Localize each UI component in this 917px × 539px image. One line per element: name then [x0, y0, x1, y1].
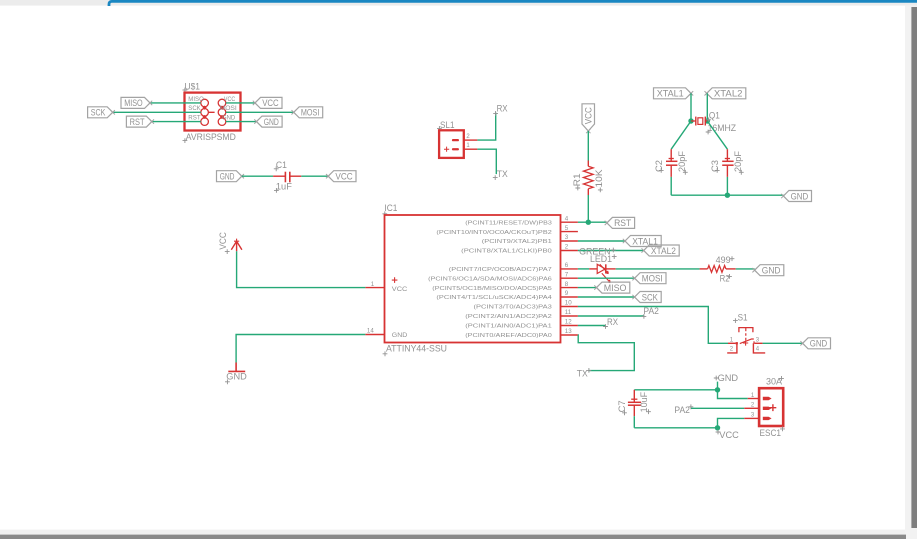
- svg-text:(PCINT5/OC1B/MISO/DO/ADC5)PA5: (PCINT5/OC1B/MISO/DO/ADC5)PA5: [432, 286, 551, 292]
- net flag VCC (C1): [328, 171, 356, 182]
- crystal Q1: [691, 120, 696, 122]
- svg-text:VCC: VCC: [719, 430, 739, 440]
- svg-text:RX: RX: [497, 104, 508, 114]
- svg-text:RST: RST: [614, 218, 631, 229]
- connector U$1 body: [185, 93, 241, 131]
- capacitor C3: [726, 149, 728, 161]
- wire R1 to RST net: [587, 195, 589, 222]
- IC1 pin 10 stub: [561, 306, 578, 308]
- svg-text:IC1: IC1: [384, 203, 397, 213]
- wire SCK to U$1: [113, 111, 201, 113]
- svg-text:MISO: MISO: [124, 98, 143, 109]
- svg-text:20pF: 20pF: [733, 150, 743, 172]
- wire LED1 to R2: [616, 268, 700, 270]
- svg-text:GND: GND: [762, 266, 781, 277]
- svg-text:7: 7: [565, 271, 569, 278]
- svg-text:PA2: PA2: [674, 405, 690, 415]
- svg-text:GND: GND: [718, 373, 739, 383]
- wire PA2 to ESC1 pin2: [691, 407, 744, 409]
- junction RST/R1: [586, 220, 591, 225]
- svg-text:GND: GND: [264, 117, 279, 128]
- svg-text:Q1: Q1: [709, 111, 720, 121]
- svg-text:(PCINT3/T0/ADC3)PA3: (PCINT3/T0/ADC3)PA3: [474, 305, 552, 311]
- wire GND to ESC1 pin1: [718, 390, 748, 399]
- wire RST net (pin 4): [578, 221, 607, 223]
- svg-text:R1: R1: [572, 173, 582, 186]
- LED LED1: [589, 268, 597, 270]
- svg-text:(PCINT9/XTAL2)PB1: (PCINT9/XTAL2)PB1: [482, 239, 552, 245]
- svg-text:XTAL2: XTAL2: [651, 246, 676, 257]
- wire SCK net (pin 9): [578, 296, 635, 298]
- right scrollbar thumb: [911, 7, 917, 528]
- wire C7 bottom: [633, 416, 635, 428]
- svg-text:(PCINT4/T1/SCL/uSCK/ADC4)PA4: (PCINT4/T1/SCL/uSCK/ADC4)PA4: [436, 295, 552, 301]
- junction left of Q1: [688, 118, 693, 123]
- net flag GND (C1): [217, 171, 242, 182]
- IC1 pin 4 stub: [561, 221, 578, 223]
- junction below C3: [725, 193, 730, 198]
- IC1 pin 9 stub: [561, 296, 578, 298]
- wire U$1 to VCC: [226, 102, 255, 104]
- svg-text:VCC: VCC: [224, 97, 236, 103]
- svg-text:14: 14: [367, 328, 374, 335]
- svg-text:GND: GND: [222, 115, 236, 121]
- svg-text:VCC: VCC: [218, 232, 228, 250]
- svg-text:S1: S1: [738, 312, 748, 322]
- wire Q1 to C3: [707, 121, 727, 149]
- net flag GND (S1): [803, 338, 831, 349]
- wire C1 to VCC: [301, 175, 328, 177]
- svg-text:(PCINT7/ICP/OC0B/ADC7)PA7: (PCINT7/ICP/OC0B/ADC7)PA7: [449, 267, 552, 273]
- svg-text:SCK: SCK: [642, 292, 659, 303]
- IC1 pin 3 stub: [561, 240, 578, 242]
- svg-text:TX: TX: [497, 169, 508, 179]
- wire GND to C1: [242, 175, 273, 177]
- svg-text:SCK: SCK: [91, 108, 106, 119]
- svg-text:2: 2: [565, 244, 569, 251]
- svg-text:GND: GND: [220, 172, 235, 183]
- IC1 pin 5 stub: [561, 231, 578, 233]
- SL1 pads: [452, 139, 459, 141]
- svg-text:30A: 30A: [766, 376, 783, 386]
- svg-text:AVRISPSMD: AVRISPSMD: [186, 132, 236, 143]
- wire VCC to R1: [587, 131, 589, 161]
- svg-text:MOSI: MOSI: [642, 274, 663, 285]
- net flag MOSI (U$1): [294, 107, 323, 118]
- wire RX net (pin 12): [578, 325, 606, 327]
- wire Q1 to C2: [671, 121, 691, 149]
- svg-text:C7: C7: [617, 400, 627, 412]
- S1 pin 2 hook: [727, 343, 737, 353]
- IC1 pin 1 (VCC) stub: [365, 287, 384, 289]
- capacitor C1: [273, 175, 285, 177]
- wire C3 down: [726, 177, 728, 195]
- svg-text:XTAL1: XTAL1: [657, 89, 684, 100]
- IC1 VCC pin label: [392, 277, 398, 283]
- U$1 pad join diamonds: [203, 106, 207, 110]
- svg-text:SL1: SL1: [440, 120, 455, 130]
- svg-text:RST: RST: [188, 115, 201, 121]
- S1 pin 3: [754, 342, 762, 344]
- net flag XTAL1 (IC1): [625, 236, 661, 247]
- ESC1 pads: [763, 397, 772, 400]
- resistor R2: [700, 268, 708, 270]
- net flag MOSI (IC1): [635, 273, 666, 284]
- wire U$1 to GND: [226, 121, 257, 123]
- resistor R1: [587, 161, 589, 167]
- IC1 pin 2 stub: [561, 250, 578, 252]
- wire XTAL1 down to Q1: [690, 93, 692, 121]
- net flag XTAL2 (crystal): [707, 88, 746, 99]
- net flag SCK (U$1): [88, 107, 113, 118]
- svg-text:VCC: VCC: [584, 107, 595, 124]
- U$1 pin direction ticks: [209, 111, 230, 113]
- svg-text:(PCINT1/AIN0/ADC1)PA1: (PCINT1/AIN0/ADC1)PA1: [465, 324, 552, 330]
- svg-text:GND: GND: [791, 191, 809, 202]
- wire C7 to VCC net: [634, 427, 717, 429]
- svg-text:13: 13: [565, 328, 572, 335]
- capacitor C2: [670, 149, 672, 161]
- svg-text:PA2: PA2: [643, 306, 659, 316]
- IC1 pin 12 stub: [561, 325, 578, 327]
- svg-text:10: 10: [565, 300, 572, 307]
- power symbol VCC (arrow): [231, 241, 242, 251]
- connector SL1 body: [439, 130, 464, 158]
- svg-text:11: 11: [565, 309, 572, 316]
- svg-text:RST: RST: [130, 117, 145, 128]
- SL1 pin 1: [464, 148, 478, 150]
- bottom dark grey bar: [0, 535, 906, 539]
- svg-text:GND: GND: [226, 372, 247, 382]
- svg-text:VCC: VCC: [392, 286, 408, 293]
- svg-text:(PCINT10/INT0/OC0A/CKOuT)PB2: (PCINT10/INT0/OC0A/CKOuT)PB2: [436, 230, 551, 236]
- net flag VCC (U$1): [255, 97, 282, 108]
- U$1 pads (6 circles): [201, 99, 209, 107]
- wire VCC to ESC1 pin3: [718, 418, 745, 427]
- svg-text:1: 1: [371, 281, 375, 288]
- wire RST to U$1: [152, 121, 201, 123]
- net flag GND (crystal): [783, 191, 811, 202]
- wire U$1 to MOSI: [226, 111, 294, 113]
- junction right of Q1: [705, 118, 710, 123]
- IC1 pin 8 stub: [561, 287, 578, 289]
- S1 pin 1: [728, 342, 736, 344]
- svg-text:VCC: VCC: [335, 172, 352, 183]
- wire XTAL2 down to Q1: [706, 93, 708, 121]
- svg-text:3: 3: [565, 234, 569, 241]
- svg-text:MOSI: MOSI: [220, 106, 238, 112]
- svg-text:LED1: LED1: [590, 254, 612, 264]
- svg-text:GND: GND: [810, 339, 828, 350]
- svg-text:RX: RX: [607, 317, 618, 327]
- wire IC1 pin10 to S1: [578, 307, 728, 344]
- wire GND label stub: [717, 382, 719, 390]
- wire MISO to U$1: [150, 102, 201, 104]
- svg-text:10uF: 10uF: [639, 391, 649, 412]
- wire PA2 net (pin 11): [578, 315, 644, 317]
- wire SL1 pin2 to RX: [477, 113, 495, 141]
- SL1 pin 2: [464, 139, 478, 141]
- wire XTAL1 net (pin 3): [578, 240, 625, 242]
- wire MOSI net (pin 7): [578, 277, 635, 279]
- svg-text:GND: GND: [392, 332, 408, 339]
- ESC1 polarity +: [770, 404, 777, 411]
- net flag RST (IC1): [607, 217, 635, 228]
- svg-text:10K: 10K: [594, 170, 604, 188]
- svg-text:(PCINT11/RESET/DW)PB3: (PCINT11/RESET/DW)PB3: [465, 220, 552, 226]
- net flag RST (U$1): [126, 116, 151, 127]
- svg-text:6: 6: [565, 262, 569, 269]
- bottom light grey strip: [0, 530, 905, 535]
- svg-text:ESC1: ESC1: [760, 428, 782, 438]
- svg-text:MISO: MISO: [188, 97, 204, 103]
- wire S1 to GND: [763, 342, 803, 344]
- svg-text:4: 4: [565, 215, 569, 222]
- svg-text:(PCINT8/XTAL1/CLKI)PB0: (PCINT8/XTAL1/CLKI)PB0: [461, 249, 552, 255]
- svg-text:(PCINT0/AREF/ADC0)PA0: (PCINT0/AREF/ADC0)PA0: [465, 333, 552, 339]
- svg-text:TX: TX: [577, 368, 588, 378]
- svg-text:ATTINY44-SSU: ATTINY44-SSU: [386, 344, 447, 355]
- net flag GND (U$1): [257, 116, 283, 127]
- svg-text:9: 9: [565, 290, 569, 297]
- svg-text:(PCINT6/OC1A/SDA/MOSI/ADC6)PA6: (PCINT6/OC1A/SDA/MOSI/ADC6)PA6: [428, 276, 552, 282]
- connector ESC1 pin stubs: [748, 398, 759, 400]
- svg-text:MOSI: MOSI: [301, 108, 320, 119]
- blue selection top border: [109, 1, 917, 6]
- wire VCC to IC1 pin1: [237, 251, 366, 287]
- svg-text:R2: R2: [720, 273, 730, 283]
- IC1 body: [385, 215, 561, 343]
- ground symbol (IC1): [228, 363, 245, 372]
- capacitor C7: [633, 390, 635, 403]
- junction GND net (ESC): [715, 387, 720, 392]
- IC1 pin 7 stub: [561, 277, 578, 279]
- svg-text:8: 8: [565, 281, 569, 288]
- right scrollbar track: [905, 6, 917, 539]
- svg-text:20pF: 20pF: [677, 150, 687, 172]
- power flag VCC (above R1): [582, 104, 595, 131]
- svg-text:12: 12: [565, 319, 572, 326]
- IC1 pin 14 (GND) stub: [365, 334, 384, 336]
- svg-text:SCK: SCK: [188, 106, 200, 112]
- connector ESC1 body: [759, 388, 783, 426]
- wire R2 to GND: [736, 268, 755, 270]
- wire MISO net (pin 8): [578, 287, 597, 289]
- IC1 pin 6 stub: [561, 268, 578, 270]
- net flag MISO (U$1): [121, 97, 150, 108]
- junction VCC net (ESC): [715, 425, 720, 430]
- browser top grey strip: [0, 0, 917, 6]
- wire IC1 pin14 to GND: [236, 335, 365, 363]
- IC1 pin 11 stub: [561, 315, 578, 317]
- wire crystal caps to GND: [671, 194, 783, 196]
- net flag GND (R2): [755, 265, 784, 276]
- svg-text:XTAL2: XTAL2: [714, 89, 743, 100]
- wire C2 down: [670, 177, 672, 195]
- svg-text:VCC: VCC: [262, 98, 279, 109]
- S1 pin 4 hook: [753, 343, 765, 353]
- net flag XTAL1 (crystal): [654, 88, 692, 99]
- wire IC1 pin6 to LED1: [578, 268, 589, 270]
- svg-text:(PCINT2/AIN1/ADC2)PA2: (PCINT2/AIN1/ADC2)PA2: [465, 314, 552, 320]
- net flag SCK (IC1): [635, 292, 662, 303]
- net flag MISO (IC1): [597, 282, 630, 293]
- IC1 pin 13 stub: [561, 334, 578, 336]
- switch S1: [739, 328, 753, 333]
- wire TX net (pin 13): [578, 335, 634, 371]
- wire XTAL2 net (pin 2): [578, 250, 644, 252]
- net flag XTAL2 (IC1): [644, 245, 680, 256]
- wire SL1 pin1 to TX: [477, 149, 496, 174]
- svg-text:MISO: MISO: [604, 283, 627, 294]
- svg-text:5: 5: [565, 225, 569, 232]
- wire C7 top / GND net: [634, 389, 717, 391]
- svg-text:499: 499: [716, 255, 731, 265]
